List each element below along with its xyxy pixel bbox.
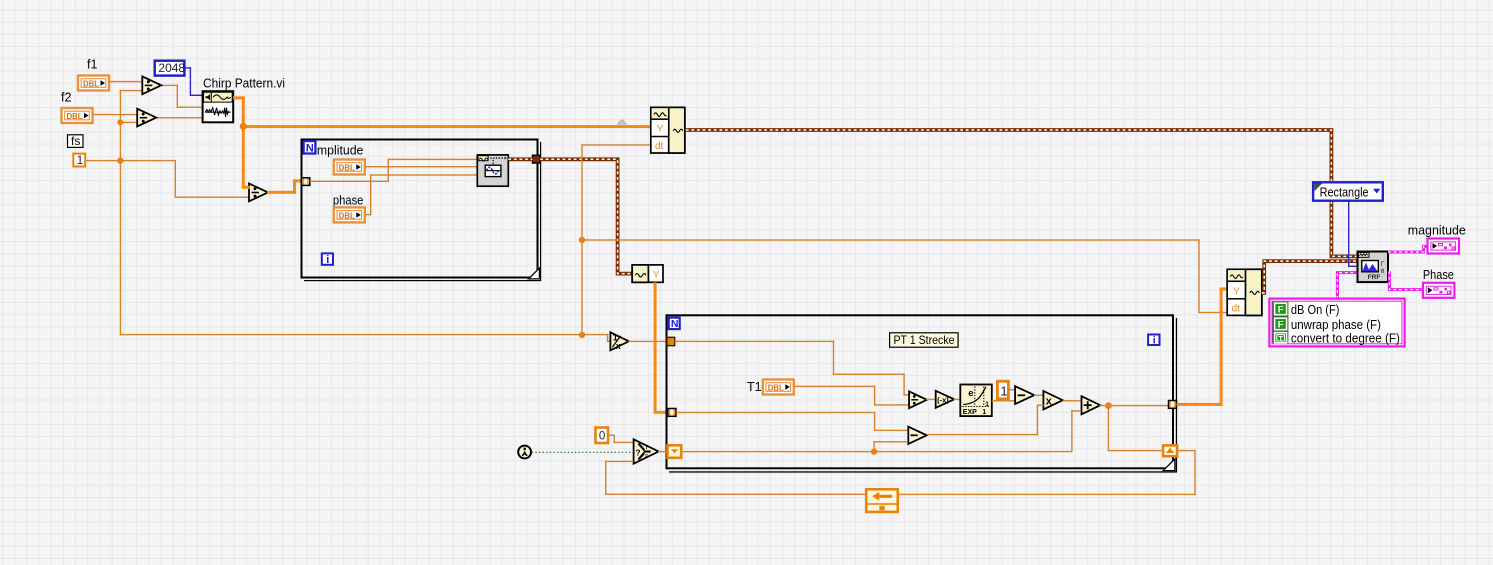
wire FRF magnitude out (magenta) bbox=[1388, 246, 1428, 252]
wire fs vertical up bbox=[120, 122, 121, 161]
svg-text:θ: θ bbox=[1381, 268, 1385, 275]
First Call? node bbox=[518, 446, 531, 459]
wire phase to sine VI input3 bbox=[365, 214, 371, 215]
feedback node bbox=[866, 489, 898, 512]
label fs (boxed) bbox=[68, 134, 84, 148]
indicator magnitude bbox=[1428, 239, 1460, 254]
wire fs vertical up to divide1 bbox=[120, 90, 121, 123]
wire add out to tunnel and shift register bbox=[1100, 405, 1170, 406]
wire GetY out (thick array) down to loop2 tunnel bbox=[654, 282, 657, 412]
svg-text:F: F bbox=[1278, 320, 1284, 331]
junction dot fs bbox=[117, 157, 123, 163]
svg-text:FRF: FRF bbox=[1368, 274, 1381, 281]
wire feedback node output to select f input bbox=[605, 461, 634, 462]
tunnel auto-index input (loop1) bbox=[302, 178, 310, 186]
svg-text:magnitude: magnitude bbox=[1408, 223, 1466, 238]
wire fs bottom long horizontal bbox=[120, 334, 609, 335]
wire fs to divide2 bottom bbox=[120, 122, 138, 123]
for-loop 2 iteration terminal i bbox=[1148, 335, 1159, 347]
wire array element u to subtract2 bbox=[676, 412, 875, 413]
junction dot fs-1/x bbox=[579, 332, 585, 338]
svg-text:1: 1 bbox=[982, 409, 986, 416]
tunnel 1/x input (loop2, solid orange) bbox=[667, 337, 675, 345]
svg-text:mplitude: mplitude bbox=[317, 143, 364, 158]
wire tunnel to sine VI input1 bbox=[310, 181, 389, 182]
svg-text:Chirp Pattern.vi: Chirp Pattern.vi bbox=[203, 76, 285, 91]
svg-text:PT 1 Strecke: PT 1 Strecke bbox=[894, 333, 955, 347]
control phase DBL terminal bbox=[334, 207, 365, 222]
junction dot add output bbox=[1105, 402, 1112, 409]
junction dot fs upper bbox=[117, 119, 123, 125]
wire 1 to subtract bbox=[1008, 389, 1015, 390]
wire shift-register net to add input bbox=[1071, 410, 1072, 452]
wire divide2 out to chirp bbox=[156, 117, 204, 118]
wire negate to exp bbox=[954, 399, 962, 400]
svg-text:?: ? bbox=[635, 448, 640, 458]
constant 0 bbox=[596, 428, 609, 444]
wire dt/T1 inside loop2 bbox=[675, 341, 835, 342]
junction dot shift-register net bbox=[871, 448, 877, 454]
negate function (-x) bbox=[936, 391, 955, 408]
control T1 DBL terminal bbox=[763, 380, 794, 395]
for-loop 1 border bbox=[302, 140, 542, 282]
subtract function (1-e) bbox=[1015, 386, 1034, 404]
wire loop2 array out to BW2 (thick) bbox=[1177, 403, 1223, 406]
wire select out to shift register bbox=[658, 451, 668, 452]
wire jog into 1/x bbox=[607, 334, 608, 341]
svg-text:T: T bbox=[645, 445, 648, 451]
wire 0 to select bbox=[608, 435, 615, 436]
wire divide3 out to loop1 tunnel (thick) bbox=[267, 191, 296, 194]
svg-text:1: 1 bbox=[1000, 384, 1007, 399]
svg-text:x: x bbox=[616, 341, 621, 351]
divide function (chirp/fs) bbox=[249, 184, 268, 202]
shift register left (down arrow) bbox=[668, 445, 682, 458]
wire Amplitude to sine VI input2 bbox=[365, 166, 477, 167]
wire BW1 waveform out to FRF (brown) bbox=[686, 130, 1358, 256]
constant 1 (fs value) bbox=[73, 154, 85, 167]
wire fs to BW1 dt bbox=[581, 144, 651, 145]
for-loop 2 border bbox=[667, 315, 1178, 472]
wire FRF phase out (magenta) bbox=[1389, 271, 1423, 289]
wire First Call to select (boolean dotted) bbox=[532, 451, 633, 453]
svg-text:convert to degree (F): convert to degree (F) bbox=[1291, 331, 1400, 346]
wire f2 to divide2 bbox=[93, 114, 138, 115]
Build Waveform node 1 bbox=[651, 107, 685, 153]
wire fs long left vertical bbox=[120, 161, 121, 336]
boolean config cluster constant bbox=[1269, 299, 1404, 347]
control f2 DBL terminal bbox=[62, 108, 93, 123]
wire long dt line to BW2 bbox=[581, 239, 1199, 240]
wire bool cluster to FRF (magenta) bbox=[1337, 273, 1357, 299]
svg-text:1: 1 bbox=[77, 155, 83, 167]
wire BW2 out to FRF (brown) bbox=[1262, 261, 1358, 293]
wire fs net: 1 to junction bbox=[85, 160, 120, 161]
FRF subVI node bbox=[1358, 252, 1389, 283]
svg-text:f2: f2 bbox=[61, 91, 71, 105]
divide function (dt/T1) bbox=[909, 391, 927, 408]
junction dot chirp bbox=[240, 123, 247, 130]
wire fs right toward divide3 bbox=[120, 160, 175, 161]
svg-text:phase: phase bbox=[333, 193, 364, 208]
wire waveform from tunnel down to Get Y bbox=[540, 159, 632, 273]
svg-text:dB On (F): dB On (F) bbox=[1291, 302, 1340, 317]
subVI Chirp Pattern.vi icon bbox=[203, 91, 234, 122]
svg-text:(-x): (-x) bbox=[937, 395, 949, 404]
label PT 1 Strecke (boxed) bbox=[890, 333, 959, 347]
svg-text:dt: dt bbox=[655, 141, 664, 152]
shift register right (up arrow) bbox=[1163, 445, 1177, 456]
svg-text:EXP: EXP bbox=[963, 409, 977, 416]
wire T1 to divide4 bbox=[794, 386, 876, 387]
gray triangle marker on wire bbox=[617, 120, 626, 125]
svg-text:1: 1 bbox=[985, 401, 989, 408]
svg-text:x: x bbox=[1046, 396, 1053, 408]
svg-text:dt: dt bbox=[1232, 304, 1241, 315]
wire sine VI out to tunnel (waveform) bbox=[508, 157, 532, 161]
divide function (f1/fs) bbox=[142, 76, 161, 94]
svg-text:Phase: Phase bbox=[1423, 267, 1454, 282]
exponential function node bbox=[960, 385, 992, 417]
select function bbox=[634, 439, 659, 463]
wire divide4 to negate bbox=[926, 399, 936, 400]
svg-text:T: T bbox=[1278, 334, 1283, 343]
Get Waveform Y node bbox=[632, 265, 663, 282]
wire 1/x out to loop2 tunnel bbox=[628, 341, 667, 342]
svg-text:F: F bbox=[1278, 305, 1284, 316]
wire subtract2 out up to multiply bbox=[927, 434, 1039, 435]
wire multiply to add bbox=[1063, 400, 1082, 401]
svg-text:Y: Y bbox=[656, 123, 663, 135]
svg-text:2048: 2048 bbox=[158, 61, 185, 75]
constant 2048 bbox=[155, 61, 186, 76]
wire chirp output (thick) bbox=[233, 96, 245, 99]
svg-text:Rectangle: Rectangle bbox=[1320, 185, 1369, 199]
svg-text:Γ: Γ bbox=[1381, 261, 1385, 268]
svg-text:0: 0 bbox=[599, 431, 605, 443]
Rectangle window enum constant bbox=[1313, 182, 1383, 200]
junction dot fs-dt bbox=[579, 237, 585, 243]
wire shift register left out bbox=[682, 451, 1073, 452]
tunnel auto-index array in (loop2) bbox=[668, 409, 676, 417]
wire 2048 to chirp (blue) bbox=[184, 67, 191, 68]
svg-text:i: i bbox=[326, 254, 329, 266]
svg-text:N: N bbox=[671, 318, 679, 330]
svg-text:e: e bbox=[968, 388, 973, 399]
Build Waveform node 2 bbox=[1227, 269, 1262, 315]
subVI Sine Waveform.vi icon bbox=[477, 155, 508, 186]
wire enum to FRF (blue) bbox=[1348, 201, 1349, 267]
for-loop 1 iteration terminal i bbox=[322, 253, 333, 266]
wire divide1 out to chirp bbox=[161, 85, 178, 86]
wire fs long vertical bbox=[581, 144, 582, 335]
indicator Phase bbox=[1423, 283, 1455, 298]
reciprocal 1/x node bbox=[610, 332, 628, 351]
for-loop 1 count terminal N bbox=[304, 141, 316, 155]
wire subtract to multiply bbox=[1034, 395, 1044, 396]
svg-text:Y: Y bbox=[653, 269, 660, 281]
wire f1 to divide1 bbox=[109, 81, 143, 82]
subtract2 function (u - y_prev) bbox=[908, 427, 926, 444]
for-loop 2 count terminal N bbox=[669, 318, 680, 331]
svg-text:fs: fs bbox=[71, 134, 80, 148]
wire fs to divide1 bottom bbox=[120, 90, 143, 91]
tunnel loop1 output (waveform, brown) bbox=[533, 155, 541, 163]
add function bbox=[1082, 396, 1101, 414]
divide function (f2/fs) bbox=[137, 109, 156, 127]
tunnel auto-index array out (loop2) bbox=[1169, 401, 1177, 409]
multiply function bbox=[1043, 391, 1062, 409]
svg-text:F: F bbox=[645, 455, 648, 461]
wire shift register right to feedback node bbox=[1178, 450, 1196, 451]
wire exp to subtract bbox=[992, 400, 1015, 401]
svg-text:f1: f1 bbox=[87, 58, 97, 72]
svg-text:N: N bbox=[306, 143, 314, 155]
wire add output down to right shift register bbox=[1108, 406, 1109, 450]
svg-text:Y: Y bbox=[1233, 285, 1240, 297]
svg-text:T1: T1 bbox=[747, 380, 762, 394]
control f1 DBL terminal bbox=[78, 76, 109, 91]
control Amplitude DBL terminal bbox=[334, 160, 365, 175]
svg-text:i: i bbox=[1153, 335, 1156, 347]
constant 1 (loop2) bbox=[997, 381, 1008, 399]
